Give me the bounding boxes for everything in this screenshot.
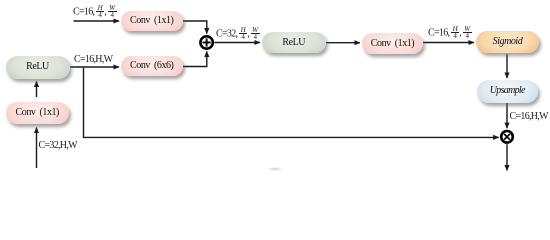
label C=16,H,W right (510, 112, 548, 122)
wire Conv 1x1 top to adder (183, 21, 207, 34)
wire adder to ReLU mid (214, 42, 260, 44)
wire Upsample to multiplier (506, 103, 508, 128)
wire input bottom-left up to Conv 1x1 left (36, 128, 38, 168)
faint smudge artifact (266, 167, 284, 171)
wire Conv 1x1 left to ReLU left (36, 81, 38, 97)
label C=16,H/4,W/4 top-left (73, 6, 117, 18)
label C=32,H/4,W/4 after adder (216, 28, 260, 40)
box ReLU mid (262, 32, 327, 54)
wire ReLU mid to Conv 1x1 mid (326, 42, 360, 44)
box Upsample (477, 80, 538, 103)
multiplier circle-times (501, 131, 513, 143)
box Sigmoid (476, 31, 539, 53)
wire input top-left to Conv 1x1 top (74, 20, 120, 22)
label C=16,H,W row2 (74, 55, 112, 65)
wire multiplier output down (506, 144, 508, 170)
wire Sigmoid to Upsample (506, 54, 508, 78)
wire Conv 6x6 to adder (183, 51, 207, 66)
wire ReLU left to Conv 6x6 (70, 66, 119, 68)
box Conv 1x1 left (6, 102, 70, 124)
label C=32,H,W bottom-left (39, 141, 77, 151)
wire Conv 1x1 mid to Sigmoid (423, 42, 474, 44)
box ReLU left (6, 56, 70, 79)
box Conv 6x6 (121, 56, 183, 76)
skip wire branch down and across to multiplier (84, 68, 499, 138)
label C=16,H/4,W/4 before Sigmoid (428, 27, 472, 39)
adder circle-plus (200, 36, 212, 48)
wires and arrow svg (0, 0, 550, 175)
box Conv 1x1 mid (362, 33, 423, 54)
box Conv 1x1 top (121, 11, 183, 31)
